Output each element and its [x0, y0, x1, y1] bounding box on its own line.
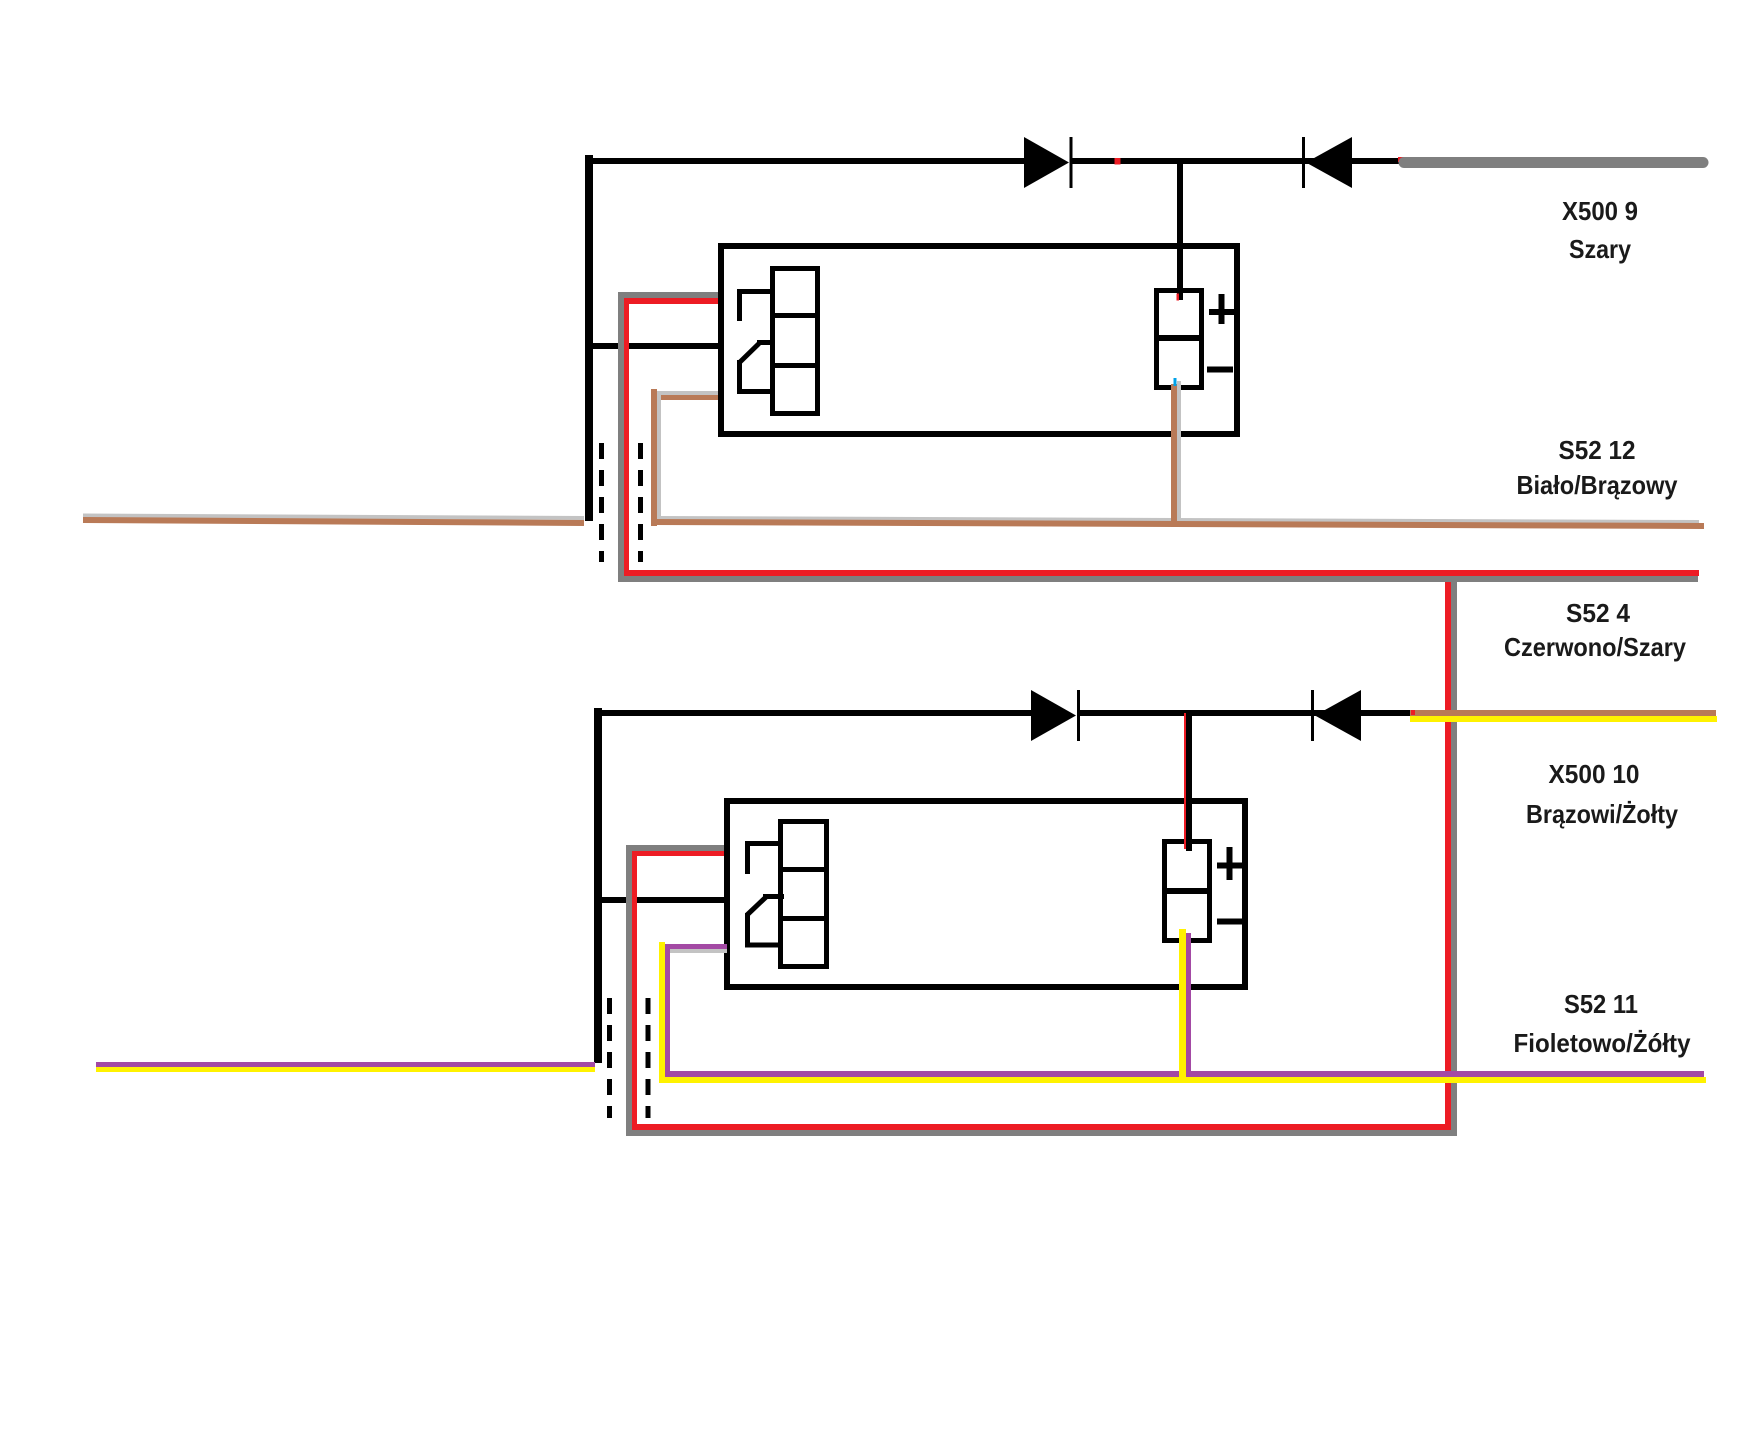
svg-text:S52 11: S52 11: [1564, 989, 1638, 1019]
wire S52 12 white long left: [83, 516, 584, 519]
wire S52 4 gray stub into K1: [618, 292, 718, 298]
relay K1 plus label: [1209, 294, 1234, 324]
wire S52 11 yellow long left: [96, 1067, 595, 1072]
wire S52 11 white stub into K2: [667, 949, 727, 953]
relay K2 minus label: [1217, 919, 1243, 925]
wire S52 4 gray stub into K2: [627, 845, 724, 851]
wire coil minus white drop (K1): [1177, 381, 1181, 521]
relay K2 switch lever: [745, 894, 784, 948]
relay K1 minus label: [1207, 367, 1233, 373]
wire S52 4 gray bottom horizontal: [626, 1130, 1457, 1136]
svg-text:X500 9: X500 9: [1562, 196, 1638, 226]
relay K1 outline: [721, 246, 1237, 434]
wire S52 12 brown stub into K1: [655, 395, 718, 400]
relay K2 outline: [727, 801, 1245, 987]
wire junction to coil plus (circuit 2): [1184, 713, 1192, 851]
wire top rail (circuit 1): [585, 158, 1024, 164]
node cyan tick at K1 minus: [1174, 378, 1177, 386]
wire coil minus brown drop (K1): [1171, 384, 1177, 526]
wire S52 11 purple long right: [665, 1071, 1704, 1077]
wire D4 to colored lead: [1314, 710, 1411, 716]
wire coil minus purple drop (K2): [1186, 933, 1191, 1077]
wire S52 4 red stub into K1: [622, 298, 718, 304]
node red tick at gray joint: [1398, 157, 1404, 162]
wire S52 4 red horizontal: [624, 570, 1699, 576]
wire 86 feed (circuit 2): [598, 897, 724, 903]
svg-text:Szary: Szary: [1569, 234, 1631, 264]
diode D2: [1302, 137, 1352, 188]
node red paint tick: [1115, 158, 1121, 165]
svg-text:S52 4: S52 4: [1566, 598, 1631, 628]
wire S52 4 red stub into K2: [631, 851, 724, 856]
wire 86 feed (circuit 1): [589, 343, 718, 349]
wire S52 12 white vertical: [657, 391, 661, 520]
svg-text:X500 10: X500 10: [1549, 759, 1640, 789]
wire X500 10 yellow lead: [1410, 716, 1717, 722]
wire D2 to gray lead: [1305, 158, 1405, 164]
dashed line L1 (top bundle): [599, 443, 604, 562]
svg-text:Brązowi/Żołty: Brązowi/Żołty: [1526, 799, 1678, 829]
node red tick at coil entry: [1177, 294, 1180, 301]
wire S52 4 gray vertical (left bundle 2): [626, 845, 632, 1136]
dashed line L4 (bottom bundle): [646, 998, 651, 1118]
wire S52 4 red vertical (left bundle): [624, 298, 629, 576]
wire S52 12 brown long right: [651, 522, 1704, 526]
wire X500 9 gray lead: [1404, 157, 1703, 168]
diode D3: [1031, 690, 1080, 741]
node left vertical (circuit 1): [585, 155, 593, 521]
svg-text:S52 12: S52 12: [1559, 435, 1636, 465]
wire S52 12 white stub into K1: [655, 391, 718, 396]
wire S52 11 yellow long right: [659, 1077, 1706, 1083]
node left vertical (circuit 2): [594, 708, 602, 1063]
wire S52 4 red/gray vertical trunk (right side): [1445, 574, 1457, 1136]
wire S52 4 gray horizontal: [618, 576, 1698, 582]
relay K1 pin block: [770, 269, 820, 414]
wire S52 11 yellow vertical: [659, 942, 665, 1083]
relay K1 switch lever: [737, 340, 775, 394]
wire S52 4 red bottom horizontal: [632, 1124, 1451, 1130]
svg-text:Fioletowo/Żółty: Fioletowo/Żółty: [1514, 1028, 1691, 1058]
wire S52 4 red vertical (left bundle 2): [632, 851, 637, 1130]
wire S52 12 brown long left: [83, 520, 584, 523]
wire S52 4 gray vertical (left bundle): [618, 292, 624, 582]
wire D3 to junction: [1080, 710, 1313, 716]
node red tick at X500 10 joint: [1411, 710, 1415, 715]
svg-text:Biało/Brązowy: Biało/Brązowy: [1517, 470, 1678, 500]
diode D4: [1311, 690, 1361, 741]
wire S52 11 purple long left: [96, 1062, 595, 1067]
svg-text:Czerwono/Szary: Czerwono/Szary: [1504, 632, 1686, 662]
wire top rail (circuit 2): [594, 710, 1031, 716]
wire junction to coil plus (circuit 1): [1177, 160, 1183, 300]
wire S52 11 purple vertical: [665, 944, 670, 1077]
relay K1 contact 87 stub: [737, 289, 770, 321]
diode D1: [1024, 137, 1073, 188]
relay K2 plus label: [1217, 847, 1242, 880]
wire S52 11 purple stub into K2: [664, 944, 727, 949]
relay K2 coil box: [1162, 842, 1212, 941]
wire X500 10 brown lead: [1410, 710, 1716, 716]
dashed line L3 (bottom bundle): [607, 998, 612, 1118]
dashed line L2 (top bundle): [638, 443, 643, 562]
wire D1 to junction: [1072, 158, 1304, 164]
relay K2 pin block: [778, 822, 829, 967]
relay K1 coil box: [1154, 291, 1204, 388]
wire S52 12 white long right: [657, 518, 1699, 522]
wire coil minus yellow drop (K2): [1179, 929, 1186, 1078]
relay K2 contact 87 stub: [745, 841, 778, 874]
wire S52 12 brown vertical: [651, 389, 657, 526]
